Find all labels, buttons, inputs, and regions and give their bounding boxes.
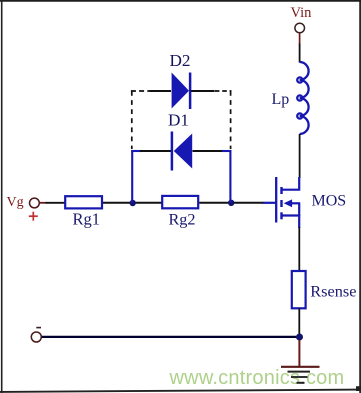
transistor MOS body line xyxy=(291,202,300,204)
svg-text:D1: D1 xyxy=(168,111,189,130)
transistor MOS source lead xyxy=(282,216,299,229)
wire left branch vertical (blue) xyxy=(131,150,133,203)
transistor MOS gate bar xyxy=(275,177,277,223)
terminal bottom-left xyxy=(31,332,41,342)
wire D1 anode side xyxy=(193,150,223,152)
transistor MOS source vertical join xyxy=(298,203,300,216)
wire left branch corner stub (blue) xyxy=(131,150,142,152)
wire Vg stub (red part) xyxy=(40,202,47,204)
wire Lp to MOS drain xyxy=(299,134,301,178)
border bottom edge xyxy=(0,390,361,392)
diode D1 bar xyxy=(171,132,174,171)
wire D2 anode pin xyxy=(150,90,172,92)
diode D2 bar xyxy=(189,73,192,110)
inductor Lp turn knob 2 xyxy=(297,95,302,100)
svg-text:Rsense: Rsense xyxy=(310,282,356,301)
wire D1 cathode side xyxy=(140,150,171,152)
wire dashed left vertical xyxy=(131,91,133,149)
wire dashed D2 cathode side xyxy=(215,90,232,92)
terminal Vg xyxy=(30,198,40,208)
transistor MOS channel mid segment xyxy=(280,200,282,207)
terminal Vin xyxy=(295,23,305,33)
wire Rsense to junction xyxy=(298,308,300,338)
transistor MOS gate lead xyxy=(263,202,276,204)
svg-text:Rg1: Rg1 xyxy=(73,209,101,228)
wire source to Rsense xyxy=(298,227,300,272)
border bottom-right nub xyxy=(356,386,361,391)
border top edge xyxy=(0,0,361,2)
wire right branch corner stub (blue) xyxy=(221,150,231,152)
svg-text:Vin: Vin xyxy=(291,5,313,21)
svg-text:Lp: Lp xyxy=(272,91,290,108)
resistor Rsense xyxy=(292,271,306,308)
transistor MOS channel top segment xyxy=(280,187,282,194)
wire D2 cathode pin xyxy=(191,90,215,92)
inductor Lp turn knob 3 xyxy=(297,113,302,118)
wire Vin stem (red part) xyxy=(299,33,301,44)
wire bottom return xyxy=(42,336,299,338)
svg-text:www.cntronics.com: www.cntronics.com xyxy=(169,367,345,389)
transistor MOS channel bottom segment xyxy=(280,212,282,219)
inductor Lp coil arcs xyxy=(300,62,309,134)
wire Rg2 to gate xyxy=(199,202,263,204)
diode D1 triangle xyxy=(174,134,192,169)
border left edge xyxy=(1,0,3,393)
label minus xyxy=(36,327,41,329)
wire Vg to Rg1 xyxy=(46,202,66,204)
node junction A xyxy=(130,200,136,206)
wire Rg1 to Rg2 xyxy=(103,202,162,204)
wire dashed D2 anode side xyxy=(131,90,150,92)
inductor Lp turn knob 1 xyxy=(297,77,302,82)
resistor Rg1 xyxy=(65,196,102,208)
wire right branch vertical (blue) xyxy=(229,150,231,203)
diode D2 triangle xyxy=(172,73,189,109)
node junction C xyxy=(296,334,303,341)
wire junction to ground (maroon) xyxy=(298,340,300,366)
wire dashed right vertical xyxy=(230,91,232,149)
svg-text:MOS: MOS xyxy=(312,193,347,210)
ground bar 4 xyxy=(297,382,305,384)
node junction B xyxy=(228,200,234,206)
svg-text:Rg2: Rg2 xyxy=(169,210,196,228)
plus sign xyxy=(29,212,38,221)
border right edge xyxy=(359,0,361,393)
svg-text:Vg: Vg xyxy=(7,195,24,210)
ground bar 3 xyxy=(291,376,308,378)
transistor MOS body arrow xyxy=(284,199,292,207)
ground bar 1 xyxy=(281,366,320,368)
resistor Rg2 xyxy=(162,196,198,208)
svg-text:D2: D2 xyxy=(170,51,191,70)
wire Vin to Lp xyxy=(299,44,301,63)
ground bar 2 xyxy=(288,371,311,373)
transistor MOS drain lead xyxy=(282,177,299,190)
